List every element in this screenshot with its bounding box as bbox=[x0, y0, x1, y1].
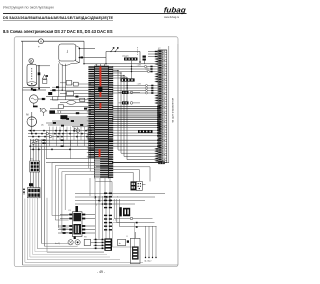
connector X4 bbox=[120, 76, 135, 81]
aux small boxes bbox=[52, 81, 91, 89]
connector XS1 bbox=[30, 161, 40, 172]
wire bus group A bbox=[112, 65, 157, 72]
header rule bbox=[3, 12, 187, 14]
fuel valve bbox=[42, 75, 48, 84]
connector X6 bbox=[138, 130, 153, 133]
control panel label bbox=[171, 97, 175, 123]
svg-text:1 1 1: 1 1 1 bbox=[113, 220, 117, 222]
shunt box bbox=[84, 239, 93, 245]
wire thick bus bbox=[46, 159, 169, 182]
svg-text:x1(хд2): x1(хд2) bbox=[122, 55, 129, 57]
lamp H1 bbox=[38, 39, 43, 48]
fuse block F1 bbox=[130, 232, 140, 264]
svg-text:бак: бак bbox=[67, 50, 69, 53]
svg-text:Инструкция по эксплуатации: Инструкция по эксплуатации bbox=[3, 5, 54, 9]
wire loop right bbox=[114, 199, 156, 228]
temp sensor bbox=[40, 108, 48, 116]
wire left bundle bbox=[30, 139, 38, 161]
wire bottom bus bbox=[23, 264, 179, 266]
svg-text:DS 5A/22/26A/55AE/AA/5A4/AE/5A: DS 5A/22/26A/55AE/AA/5A4/AE/5A1/1E/7AE/Д… bbox=[3, 16, 114, 20]
wire ladder bottom drops bbox=[90, 178, 112, 208]
page number bbox=[97, 270, 105, 274]
svg-text:5: 5 bbox=[96, 205, 97, 207]
svg-text:Щ 1 Щ 2: Щ 1 Щ 2 bbox=[145, 261, 152, 263]
wire tank bottom bbox=[23, 88, 50, 91]
wire block drops bbox=[37, 146, 104, 252]
wire bus block bbox=[112, 106, 160, 126]
wire long bus left bbox=[29, 139, 160, 147]
wire left frame bbox=[22, 41, 24, 265]
wire bus group B bbox=[112, 85, 157, 95]
relay K1 bbox=[58, 206, 95, 239]
connector pins right bbox=[104, 193, 112, 231]
svg-text:M: M bbox=[26, 112, 28, 116]
regulator cluster bbox=[48, 91, 91, 126]
red marker wire lower bbox=[99, 149, 101, 157]
red marker wire upper bbox=[98, 67, 102, 109]
dashed link bbox=[137, 47, 139, 56]
svg-text:на щит управления: на щит управления bbox=[171, 97, 175, 123]
model list bbox=[3, 16, 114, 20]
wire bundle mid bbox=[29, 172, 39, 188]
wire right frame outer bbox=[177, 44, 179, 265]
connector XS2 bbox=[23, 188, 40, 198]
connector bar X9 bbox=[113, 207, 135, 247]
svg-text:H: H bbox=[40, 39, 42, 43]
wire bundle outer bbox=[42, 139, 45, 246]
engine starter block bbox=[59, 44, 80, 65]
connector X8 bbox=[131, 181, 146, 190]
section title bbox=[3, 29, 113, 34]
wire top frame bbox=[21, 41, 158, 64]
aux top components bbox=[119, 91, 141, 104]
bus labels bbox=[137, 65, 142, 86]
wire engine to bus bbox=[79, 48, 106, 59]
svg-text:3: 3 bbox=[117, 196, 118, 198]
fuel line bbox=[38, 65, 41, 88]
wire hook bbox=[110, 47, 118, 52]
wire engine drops bbox=[59, 64, 66, 100]
svg-text:8.5 Схема электрическая DS 27: 8.5 Схема электрическая DS 27 DAC ES, DS… bbox=[3, 29, 113, 34]
label bbox=[41, 125, 44, 127]
svg-text:Iн=C(: Iн=C( bbox=[55, 243, 60, 245]
wire bundle lower bbox=[25, 199, 143, 263]
svg-text:fubag: fubag bbox=[163, 6, 186, 15]
wire grid mid bbox=[75, 194, 165, 240]
figure outer frame bbox=[14, 37, 178, 267]
starter motor M1 bbox=[26, 112, 36, 133]
aux cluster wires bbox=[46, 89, 91, 127]
lamp HL1 bbox=[68, 240, 73, 245]
wire right frame inner bbox=[168, 46, 170, 163]
wire right corner bbox=[160, 163, 169, 170]
svg-text:- 49 -: - 49 - bbox=[97, 270, 105, 274]
current transformer box bbox=[118, 239, 129, 245]
lamp HL2 bbox=[55, 240, 80, 245]
wire right drops bbox=[145, 226, 157, 263]
header text bbox=[3, 5, 54, 9]
wire junction riser bbox=[127, 61, 133, 93]
connector ladder X1 bbox=[87, 66, 113, 179]
wire bottom links bbox=[0, 0, 1, 1]
wire risers bbox=[47, 127, 91, 171]
connector X3 bbox=[122, 55, 146, 63]
wire ladder left drops bbox=[52, 163, 94, 233]
terminal entry stubs bbox=[155, 58, 158, 161]
sensor theta2 bbox=[74, 128, 79, 132]
connector X10 bbox=[104, 238, 112, 250]
pin cluster bbox=[94, 239, 105, 249]
fubag logo bbox=[163, 6, 186, 19]
junction bus rows bbox=[28, 130, 94, 150]
wire ladder top stubs bbox=[83, 63, 104, 66]
svg-text:www.fubag.ru: www.fubag.ru bbox=[164, 16, 180, 19]
fuel tank bbox=[27, 58, 50, 86]
fuel level sensor bbox=[31, 68, 33, 81]
charge generator G1 bbox=[23, 89, 47, 107]
wire corner drops bbox=[112, 70, 157, 160]
terminal strip XT1 bbox=[158, 50, 167, 163]
wire top loop bbox=[105, 52, 141, 65]
svg-text:ty: ty bbox=[38, 45, 40, 48]
wire strip top stubs bbox=[148, 51, 158, 57]
wire bus lower bbox=[112, 127, 160, 137]
